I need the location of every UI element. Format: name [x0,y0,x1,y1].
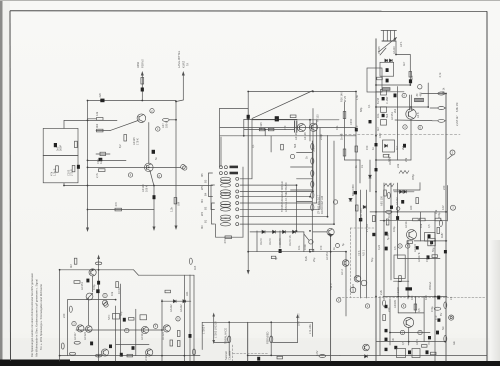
capacitor C124 [90,342,93,346]
capacitor C111 detector [279,249,282,253]
wire x202 drop [201,322,203,349]
wire diag to circle a [304,234,309,240]
thermistor zigzag 2 [384,184,394,187]
capacitor C163 [385,305,388,308]
resistor R131 oval [95,262,101,265]
svg-text:C-MW: C-MW [385,96,389,104]
resistor R173 [435,218,441,221]
resistor R138 oval [74,341,80,344]
diode D8 afc [385,144,388,147]
resistor R144 [177,341,180,347]
svg-text:OA70: OA70 [259,238,263,245]
svg-text:50μ: 50μ [370,257,374,262]
svg-text:560: 560 [410,75,414,80]
resistor R140 oval [96,354,102,357]
wire IF stage drop 2 [240,185,297,231]
varactor diode Da [385,59,388,62]
svg-text:LIFT - DN7: LIFT - DN7 [297,313,301,326]
wire y281 link [394,280,409,282]
svg-text:Tol. +- 20% Spannungs u. Strom: Tol. +- 20% Spannungs u. Stromangaben si… [39,283,43,350]
wire bank left bracket 3 [212,203,215,224]
svg-text:5μ: 5μ [341,243,345,246]
wire mid column x312 [311,141,313,252]
bias cluster box 3 [381,120,387,126]
oscillator shield box [43,128,78,182]
svg-text:B5: B5 [204,179,208,183]
wire bank drop a [219,109,221,167]
wire drop x271 [270,136,272,152]
wire right main rail x376 [375,39,377,361]
FM antenna arrow [141,71,144,101]
label circle 9 [398,244,402,248]
svg-text:8,2: 8,2 [118,144,122,148]
wire x346 drop [345,252,347,316]
svg-text:1h 05: 1h 05 [340,133,344,140]
svg-text:8-2M: 8-2M [376,98,380,104]
resistor R126b col x312 [311,204,314,210]
resistor R115 [281,144,284,150]
wire tuner mid rail [376,91,404,93]
resistor R174 [432,255,438,258]
wire IF stage drop 1 [240,120,252,179]
wire x391 drop [390,183,392,280]
svg-text:12V: 12V [441,205,445,210]
wire bottom center rail y322 [202,321,312,323]
resistor R183 [416,198,419,204]
resistor R162 top right [438,92,445,95]
wire oscillator box feed [64,120,117,128]
svg-text:OA174: OA174 [387,153,391,162]
svg-text:LANG-MITTEL: LANG-MITTEL [177,50,181,68]
resistor R106 [99,169,106,172]
svg-text:2k2: 2k2 [393,108,397,113]
transistor T6 AF driver [89,269,96,276]
svg-text:470: 470 [355,125,359,130]
capacitor C121 [97,281,100,285]
speaker jack double circle [449,315,454,320]
transistor T13 output [101,349,108,356]
svg-text:1,5k: 1,5k [355,94,359,100]
wire x360 column [360,190,362,298]
resistor R143 [177,331,180,337]
svg-text:AC151: AC151 [80,282,84,290]
diode D11 pair [400,190,403,193]
wire AF rail x135 [135,309,137,355]
resistor R151 bottom [277,356,283,359]
transistor T4 IF amp [309,123,317,131]
resistor R133 [116,282,119,288]
svg-text:AF7: AF7 [161,123,165,128]
transistor T18 [342,260,349,267]
ferrite coil L1 [230,166,239,169]
svg-text:100μ: 100μ [92,284,96,290]
wire T17 drop [408,328,410,346]
varcap arrow diagonal [379,37,397,55]
resistor R105 collector [163,118,170,121]
capacitor C180 [444,250,447,253]
resistor R163b [438,119,445,122]
left scan shading [2,0,10,366]
svg-text:W5: W5 [200,186,204,190]
diode D7 bottom [365,355,368,358]
svg-text:4k7: 4k7 [69,263,73,268]
capacitor C147 [396,216,399,220]
thermistor zigzag [399,171,409,174]
svg-text:AD: AD [391,338,395,342]
svg-text:OA70: OA70 [268,238,272,245]
label circle n [396,207,400,211]
capacitor C146 left col [385,247,388,251]
svg-text:AC122: AC122 [161,332,165,340]
pot circle 2 [350,287,356,293]
capacitor C122 [96,289,99,293]
potentiometer P2 [86,293,93,300]
svg-text:470: 470 [319,245,323,250]
wire resistor row upper [88,118,97,120]
wire pointer double arrow [212,313,215,345]
capacitor C166 [385,348,388,351]
resistor R163 top right [438,107,445,110]
resistor R191 [422,345,428,348]
svg-text:AC117: AC117 [404,220,408,228]
wire AF transistor row [76,329,162,331]
wire T7 drop [87,298,89,325]
diode D4 [293,230,296,233]
capacitor C167 wide [406,287,413,290]
svg-text:0,5: 0,5 [393,246,397,250]
svg-text:AF126: AF126 [294,132,298,140]
resistor R190 oval vert [444,302,447,308]
label circle 5 right [450,150,455,155]
wire x452 stub [448,155,453,159]
svg-text:UKW: UKW [136,61,140,68]
svg-text:4-20: 4-20 [99,158,103,164]
resistor R137 oval [189,258,192,264]
svg-text:C450: C450 [349,118,353,125]
label circle b1 [337,298,341,302]
resistor R121 [290,115,296,118]
svg-text:10k: 10k [110,291,114,296]
svg-text:B1: B1 [204,219,208,223]
svg-text:1k87: 1k87 [440,232,444,238]
svg-text:1,2k: 1,2k [170,206,174,212]
wire x271 pot stub [270,322,272,355]
wire center bottom link [214,342,229,344]
wire trimmer stub [96,153,110,155]
arrow down right rail [175,226,178,231]
label circle B [403,125,407,129]
svg-text:2,7k: 2,7k [95,172,99,178]
resistor R175 left rail [355,205,358,211]
svg-text:ZF: ZF [415,93,419,97]
wire AF rail x120 [120,284,122,356]
svg-text:0,22: 0,22 [377,244,381,250]
frame right line [486,11,488,361]
label circle A [402,93,406,97]
capacitor C143 [394,94,397,98]
dashed box top [350,227,375,229]
wire y160 link [345,159,361,161]
box bias [425,233,436,242]
resistor R124 col x312 [311,170,314,176]
wire left vertical rail FM block [87,101,89,229]
ratio box top [393,182,420,190]
wire tuner bottom rail [376,84,410,86]
capacitor C120 [86,279,89,283]
label circle b2 [365,304,369,308]
svg-text:Die Spannungen wurden mit eine: Die Spannungen wurden mit einem Rohrenvo… [30,272,34,357]
resistor R141 [127,354,133,357]
capacitor C164 [385,329,388,332]
wire IF top rail A [248,91,356,93]
bias box 2 [428,238,436,246]
node circle 1 [183,166,187,170]
wire x344 column [344,102,346,160]
resistor R135 [129,318,135,321]
resistor R188 left rail [373,216,376,222]
svg-text:AC117K: AC117K [417,252,421,262]
svg-text:22k: 22k [396,163,400,168]
wire IF T3 feed [309,120,311,141]
svg-text:AA112: AA112 [169,304,173,312]
svg-text:TONBANDGERAT 460kHz: TONBANDGERAT 460kHz [280,180,284,212]
resistor R185 oval [383,300,386,306]
resistor R182 oval [387,192,390,198]
wire IF mid rail y119.4 [244,118,297,120]
AM antenna arrow [176,71,185,102]
capacitor C145 left col [385,232,388,236]
capacitor C110b on riser [247,115,250,119]
capacitor C154 bottom [426,350,429,354]
bottom black bar [0,361,500,366]
dashed box left vertical [349,228,351,298]
wire bank drop b [220,137,222,167]
IF transformer F2 [221,184,231,187]
resistor R194 [407,241,413,244]
dashed drop x232 [232,345,234,361]
wire AF top rail right [139,274,195,276]
svg-text:1k2: 1k2 [387,213,391,218]
svg-text:12k: 12k [95,111,99,116]
wire rail y93.5 [422,93,447,95]
svg-text:150: 150 [365,145,369,150]
resistor R187 vert [414,304,417,310]
diode D3 [283,230,286,233]
driver IC box [394,255,405,279]
capacitor C168 [437,318,440,321]
svg-text:2,2k: 2,2k [379,289,383,295]
transistor T11 [146,349,153,356]
output bottom box 1 [397,349,406,358]
wire meter rail [89,209,154,211]
capacitor C161 cluster [382,114,385,117]
svg-text:W4: W4 [200,212,204,216]
svg-text:E250 C85: E250 C85 [359,208,363,220]
wire right bottom rail [340,355,487,357]
IF transformer F7 [221,215,231,221]
capacitor C179 [390,206,393,209]
capacitor C123 [123,318,126,322]
wire IF rail C [252,119,339,121]
svg-text:2,2M 1k7: 2,2M 1k7 [455,115,459,126]
wire right vertical rail FM block [175,101,177,227]
capacitor C181 [354,191,357,194]
wire AF diode rail [162,300,191,302]
diode D5 [173,300,176,303]
resistor R107 in box [75,141,78,147]
label circle e [72,321,76,325]
arrow down x248 [247,270,250,275]
capacitor C130 bottom [257,357,260,361]
svg-text:470: 470 [434,315,438,320]
svg-text:C1005: C1005 [377,46,381,54]
svg-text:AA113: AA113 [392,46,396,54]
wire output rail y332.5 [390,332,430,334]
wire bank left bracket 1 [209,173,213,197]
pot circle 1 [361,280,367,286]
node circle 12 [333,200,337,204]
wire T5 feed [313,231,327,233]
wire x435 drop [434,212,436,361]
resistor R171 left col [386,219,389,225]
transistor T9 [86,326,93,333]
svg-text:0,1: 0,1 [251,144,255,148]
resistor R172b [420,218,426,221]
svg-text:Alle Widerstande in Ohm, Konde: Alle Widerstande in Ohm, Kondensatoren i… [35,279,39,357]
node circle 11 [309,240,313,244]
resistor R110 meter rail [115,208,122,211]
svg-text:ANSCHL 10,7MHz BAND: ANSCHL 10,7MHz BAND [284,182,288,212]
transistor T2 mixer [145,163,154,172]
capacitor C174 [394,346,397,349]
trimmer P1 volume [102,300,107,305]
wire T2 row [88,166,181,168]
wire T15 base pair [410,95,412,110]
wire long vertical x248 [247,109,249,252]
resistor R130 [74,258,77,264]
wire mid vertical T1-T2 [148,123,150,164]
capacitor C110 IF input [275,116,279,121]
diode D1 [262,230,265,233]
diode D2 [273,230,276,233]
svg-text:5Ω: 5Ω [441,327,445,330]
svg-text:AC 2: AC 2 [340,269,344,275]
wire rail jog slash [134,270,139,275]
NTC box [113,314,120,320]
svg-text:2 x OA: 2 x OA [365,224,369,232]
wire main rail y135 [220,135,356,137]
IF transformer F8 [221,223,231,226]
wire T16 links [407,240,409,299]
svg-text:XL: XL [360,164,364,168]
svg-text:460: 460 [419,92,423,97]
svg-text:455p: 455p [411,174,415,180]
varactor diode Db [389,59,392,62]
svg-text:74 S: 74 S [357,250,361,256]
top scan edge line [0,0,500,1]
frame left line [9,11,12,361]
wire IF stage drop 7 [240,135,328,216]
svg-text:5k6: 5k6 [385,113,389,118]
wire bank right vertical [242,167,244,237]
capacitor C160 cluster [382,97,385,100]
wire mid vertical to meter [153,186,155,227]
label circle 5b [406,244,410,248]
wire bottom rail center [248,354,340,356]
wire x390 low drop [389,299,391,345]
capacitor C173 [428,336,431,339]
resistor R136 [165,290,171,293]
svg-text:220: 220 [387,307,391,312]
resistor R150 center oval [270,336,273,343]
capacitor C101 antenna [141,88,144,92]
wire detector rail y251.7 [248,251,346,253]
right scan edge band [490,240,500,362]
capacitor C100 top rail [100,99,104,103]
svg-text:H11: H11 [185,291,189,296]
svg-text:B30 C450: B30 C450 [351,184,355,196]
capacitor C176 [369,120,372,123]
wire AF rail x184 [183,275,185,361]
wire x415 drop [414,297,416,313]
svg-text:50μ: 50μ [119,311,123,316]
dashed rail y134.5 [340,134,460,136]
svg-text:RATIO DET AM: RATIO DET AM [320,196,324,214]
label circle g [125,328,129,332]
wire AF row2 [116,343,149,345]
svg-text:0,5: 0,5 [401,341,405,345]
label circle k [400,330,404,334]
capacitor C151 [437,296,440,300]
diode D13 x370 [369,175,372,178]
wire x428 drop [427,83,429,107]
transistor T3 IF amp [297,124,305,132]
capacitor C178 [375,168,378,171]
transistor T1 FM amp [137,114,146,123]
wire rail y120.4 [395,119,432,122]
resistor R139 oval [61,343,64,349]
wire bank bottom [216,224,244,237]
wire rail y296.5 [383,296,447,298]
svg-text:10,5V: 10,5V [117,287,121,294]
resistor R111 right rail [174,198,177,204]
svg-text:1,3k B: 1,3k B [53,168,57,176]
svg-text:220: 220 [442,185,446,190]
resistor R146 oval [69,352,75,355]
resistor R170 left col [384,190,387,196]
svg-text:L71-AKL: L71-AKL [308,323,312,334]
wire diode pair rail [394,191,414,193]
resistor R113 [259,128,265,131]
resistor R181 x344 [343,149,346,156]
resistor R125 col x312 [311,181,314,187]
capacitor C149 [427,255,430,259]
resistor R193 [437,228,440,234]
resistor R145 oval [193,349,196,355]
transistor T12 [163,325,170,332]
capacitor C144 afc [403,144,406,148]
wire x409 tuner drop [396,41,410,85]
wire oval stubs [430,108,446,121]
wire mesh stub 2 [291,166,313,168]
svg-text:350mA: 350mA [428,282,432,290]
svg-text:AF 6: AF 6 [416,112,420,118]
capacitor C169 [401,200,404,204]
transistor T15 IF out [406,109,416,119]
label circle d [157,174,161,178]
label circle f [103,293,107,297]
svg-text:FERNS: FERNS [141,59,145,68]
